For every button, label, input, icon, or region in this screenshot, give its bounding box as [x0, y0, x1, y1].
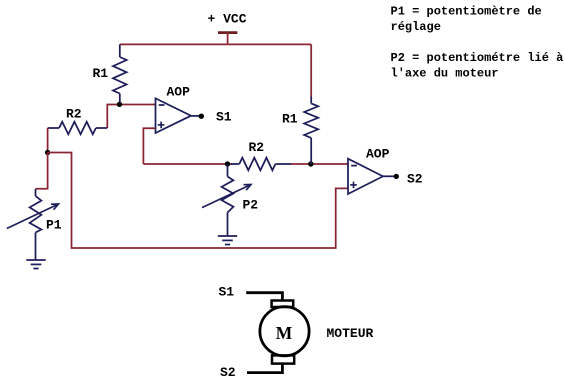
svg-text:l'axe du moteur: l'axe du moteur [391, 66, 499, 80]
wire top supply rail [120, 43, 311, 45]
power +VCC [208, 12, 247, 45]
motor top brush [272, 301, 294, 308]
resistor R2 (middle) [231, 140, 291, 170]
svg-text:R1: R1 [282, 112, 298, 127]
node A (bridge / P1 tap) [45, 150, 50, 155]
potentiometer P1 [7, 189, 62, 260]
wire U1 + input down to middle rail [143, 128, 155, 164]
wire U2 output [383, 175, 396, 177]
op-amp U1 [156, 84, 192, 133]
node S2 [394, 174, 399, 179]
motor M1 body [260, 307, 309, 356]
resistor R1 (left) [93, 44, 127, 104]
potentiometer P2 [202, 164, 258, 236]
svg-text:+ VCC: + VCC [208, 12, 247, 27]
svg-text:AOP: AOP [366, 147, 390, 162]
resistor R1 (right) [282, 97, 318, 165]
svg-text:S2: S2 [407, 172, 423, 187]
svg-text:P2: P2 [243, 198, 259, 213]
note text P1/P2 [391, 5, 564, 81]
svg-text:MOTEUR: MOTEUR [327, 326, 374, 341]
node P2 tap [225, 161, 230, 166]
node S1 [199, 114, 204, 119]
ground (P2) [218, 235, 237, 237]
svg-text:R1: R1 [93, 66, 109, 81]
svg-text:R2: R2 [66, 107, 82, 122]
svg-text:S1: S1 [219, 285, 235, 300]
wire middle rail (left) [143, 163, 232, 165]
op-amp U2 [348, 147, 390, 195]
wire U1 output [191, 115, 201, 117]
svg-text:réglage: réglage [391, 20, 441, 34]
node R1 right / R2 [308, 161, 313, 166]
svg-text:P2 = potentiométre lié à: P2 = potentiométre lié à [391, 51, 564, 65]
resistor R2 (left) [48, 107, 108, 135]
wire motor brush to S2 [247, 364, 282, 373]
svg-text:R2: R2 [249, 140, 265, 155]
wire node A to potentiometer P1 [36, 153, 48, 189]
svg-text:M: M [276, 323, 293, 343]
svg-text:P1 = potentiomètre de: P1 = potentiomètre de [391, 5, 542, 19]
wire R2 left to node A [47, 128, 49, 153]
node junction R1/R2/U1- [117, 102, 122, 107]
wire VCC rail down to R1 (right) [310, 44, 312, 96]
svg-text:AOP: AOP [167, 84, 191, 99]
wire S1 to motor brush [246, 293, 282, 301]
motor bottom brush [272, 355, 294, 363]
wire feedback loop node A to op-amp U2 + input [48, 153, 348, 249]
wire middle rail (right) [291, 163, 349, 165]
svg-text:S2: S2 [220, 365, 236, 380]
wire inverting input op-amp U1 [107, 105, 155, 129]
ground (P1) [26, 259, 45, 261]
svg-text:P1: P1 [46, 218, 62, 233]
svg-text:S1: S1 [216, 110, 232, 125]
